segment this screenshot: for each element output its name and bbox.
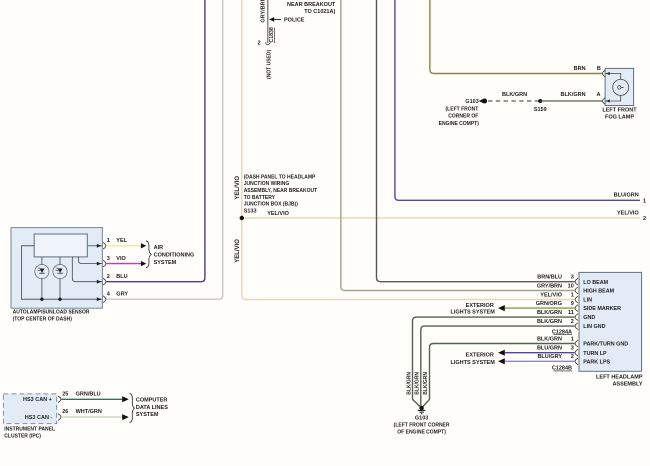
svg-text:25: 25: [62, 391, 68, 397]
wire BLK/GRN GND row5: [413, 317, 575, 408]
fog lamp bulb: [613, 79, 629, 95]
photodiode 2: [53, 265, 67, 279]
fog lamp internal wiring: [606, 74, 621, 102]
connector bracket: [265, 43, 270, 45]
svg-text:AUTOLAMP/SUNLOAD SENSOR: AUTOLAMP/SUNLOAD SENSOR: [13, 310, 90, 316]
fog lamp pin A bracket: [603, 98, 606, 105]
junction dots on sensor bus: [40, 298, 43, 301]
sensor pin arrows: [97, 244, 102, 248]
wire BLU/GRY park lps row9: [505, 360, 575, 362]
svg-text:PARK/TURN GND: PARK/TURN GND: [583, 342, 628, 348]
svg-text:GRY: GRY: [116, 292, 128, 298]
svg-text:GND: GND: [583, 315, 595, 321]
svg-text:LIN GND: LIN GND: [583, 324, 605, 330]
wire BLU/GRN turn lp row8: [505, 352, 575, 354]
svg-text:3: 3: [107, 256, 110, 262]
wire YEL sensor pin 1: [106, 245, 141, 247]
svg-text:BLK/GRN: BLK/GRN: [415, 372, 421, 395]
svg-text:HS3 CAN -: HS3 CAN -: [25, 415, 53, 421]
wire YEL/VIO vertical from top edge down through S133 to corner, then right to headlamp LIN pin: [242, 0, 575, 300]
wire BLU vertical from sensor pin 2 up to top edge: [106, 0, 205, 282]
svg-text:(NOT USED): (NOT USED): [266, 50, 272, 80]
brace air conditioning: [146, 241, 151, 268]
svg-text:BLK/GRN: BLK/GRN: [406, 372, 412, 395]
svg-text:3: 3: [571, 346, 574, 352]
svg-text:HS3 CAN +: HS3 CAN +: [23, 397, 52, 403]
sensor left loop wire: [21, 246, 102, 299]
sensor inner module: [34, 234, 87, 257]
arrow POLICE: [269, 17, 274, 22]
svg-text:LEFT FRONT: LEFT FRONT: [602, 107, 637, 113]
svg-text:NEAR BREAKOUT: NEAR BREAKOUT: [287, 2, 336, 8]
svg-text:EXTERIOR: EXTERIOR: [466, 303, 494, 309]
svg-text:(LEFT FRONT CORNER: (LEFT FRONT CORNER: [394, 423, 450, 429]
svg-text:HIGH BEAM: HIGH BEAM: [583, 289, 614, 295]
autolamp sensor box: [11, 228, 102, 309]
svg-text:TO BATTERY: TO BATTERY: [244, 195, 276, 201]
svg-text:BLU: BLU: [116, 274, 127, 280]
svg-text:OF ENGINE COMPT): OF ENGINE COMPT): [397, 429, 446, 435]
wire BRN vertical then right to fog lamp pin B: [430, 0, 603, 74]
svg-text:BLU/GRY: BLU/GRY: [537, 354, 562, 360]
wire VIO sensor pin 3: [106, 263, 141, 265]
fog lamp pin arrows: [606, 72, 610, 75]
fog lamp box: [605, 68, 634, 105]
svg-text:11: 11: [568, 310, 574, 316]
wire BLU/GRN vertical then right to edge: [395, 0, 640, 200]
svg-text:BLK/GRN: BLK/GRN: [502, 92, 527, 98]
svg-text:GRY/BRN: GRY/BRN: [537, 283, 562, 289]
svg-text:LEFT HEADLAMP: LEFT HEADLAMP: [596, 374, 643, 380]
svg-text:(TOP CENTER OF DASH): (TOP CENTER OF DASH): [13, 316, 73, 322]
svg-text:10: 10: [568, 283, 574, 289]
headlamp assembly box: [579, 272, 642, 371]
svg-text:GRN/ORG: GRN/ORG: [536, 301, 562, 307]
svg-text:3: 3: [571, 275, 574, 281]
svg-text:CONDITIONING: CONDITIONING: [154, 253, 195, 259]
svg-text:CLUSTER (IPC): CLUSTER (IPC): [4, 433, 41, 439]
wire GRY from sensor pin 4 right then up to top edge: [106, 0, 222, 299]
svg-text:(DASH PANEL TO HEADLAMP: (DASH PANEL TO HEADLAMP: [244, 174, 316, 180]
wire BLK/GRN PARK/TURN GND row7: [422, 344, 575, 409]
svg-text:2: 2: [571, 319, 574, 325]
instrument panel cluster box (dashed): [3, 394, 56, 424]
svg-text:LO BEAM: LO BEAM: [583, 280, 608, 286]
sensor pin 2 feeder: [72, 257, 102, 282]
wire GRY/BRN stub to connector C1838: [267, 0, 269, 43]
wire BLK/GRN from S159 to fog lamp pin A: [540, 100, 602, 102]
svg-text:AIR: AIR: [154, 245, 164, 251]
svg-text:GRN/BLU: GRN/BLU: [76, 391, 101, 397]
svg-text:VIO: VIO: [116, 256, 126, 262]
sensor pin brackets: [103, 243, 106, 250]
ground G103 (headlamp) dot and symbol: [419, 406, 423, 410]
svg-text:1: 1: [571, 292, 574, 298]
svg-text:BLK/GRN: BLK/GRN: [537, 319, 562, 325]
svg-text:1: 1: [643, 198, 646, 204]
svg-text:2: 2: [643, 216, 646, 222]
sensor pin 3 feeder: [79, 257, 103, 264]
wire GRN/ORG side marker: [505, 307, 575, 309]
svg-text:BRN: BRN: [574, 66, 586, 72]
svg-text:SYSTEM: SYSTEM: [154, 260, 177, 266]
svg-text:EXTERIOR: EXTERIOR: [466, 353, 494, 359]
wire GRN/BLU: [61, 398, 122, 400]
svg-text:YEL/VIO: YEL/VIO: [540, 292, 562, 298]
svg-text:B: B: [597, 66, 601, 72]
svg-text:INSTRUMENT PANEL: INSTRUMENT PANEL: [4, 427, 55, 433]
svg-text:A: A: [597, 92, 601, 98]
svg-text:POLICE: POLICE: [284, 18, 305, 24]
svg-text:G103: G103: [465, 99, 478, 105]
brace computer data lines: [130, 393, 135, 422]
svg-text:BLK/GRN: BLK/GRN: [537, 310, 562, 316]
svg-text:ASSEMBLY: ASSEMBLY: [612, 381, 642, 387]
wire BRN/BLU vertical to headlamp LO BEAM: [377, 0, 575, 282]
sensor pin 1 feeder: [88, 245, 102, 247]
svg-text:YEL/VIO: YEL/VIO: [235, 176, 241, 200]
svg-text:G103: G103: [415, 415, 428, 421]
svg-text:LIN: LIN: [583, 298, 592, 304]
wire YEL/VIO branch from S133 to right edge: [242, 217, 640, 219]
svg-text:YEL/VIO: YEL/VIO: [235, 239, 241, 263]
svg-text:TO C1021A): TO C1021A): [304, 9, 335, 15]
svg-text:1: 1: [571, 336, 574, 342]
wire BLK/GRN dashed from G103 to S159: [488, 100, 539, 102]
svg-text:PARK LPS: PARK LPS: [583, 359, 610, 365]
svg-text:S133: S133: [244, 208, 257, 214]
svg-text:WHT/GRN: WHT/GRN: [76, 409, 102, 415]
splice S159: [538, 99, 542, 103]
splice S133: [240, 216, 244, 220]
svg-text:YEL/VIO: YEL/VIO: [267, 211, 289, 217]
svg-text:CORNER OF: CORNER OF: [448, 114, 478, 120]
svg-text:SYSTEM: SYSTEM: [136, 412, 159, 418]
svg-text:ENGINE COMPT): ENGINE COMPT): [439, 121, 480, 127]
svg-text:2: 2: [107, 274, 110, 280]
svg-text:SIDE MARKER: SIDE MARKER: [583, 306, 621, 312]
wire GRY/BRN vertical to headlamp HIGH BEAM: [341, 0, 575, 291]
svg-text:BLU/GRN: BLU/GRN: [537, 346, 562, 352]
photodiode 1: [35, 265, 49, 279]
svg-text:2: 2: [571, 354, 574, 360]
svg-text:JUNCTION BOX (BJB)): JUNCTION BOX (BJB)): [244, 202, 299, 208]
svg-text:BRN/BLU: BRN/BLU: [537, 275, 562, 281]
svg-text:LIGHTS SYSTEM: LIGHTS SYSTEM: [450, 309, 495, 315]
svg-text:BLK/GRN: BLK/GRN: [537, 336, 562, 342]
svg-text:FOG LAMP: FOG LAMP: [605, 115, 634, 121]
svg-text:2: 2: [257, 40, 260, 46]
svg-text:BLU/GRN: BLU/GRN: [614, 192, 639, 198]
svg-text:S159: S159: [534, 107, 547, 113]
svg-text:(LEFT FRONT: (LEFT FRONT: [446, 107, 479, 113]
svg-text:LIGHTS SYSTEM: LIGHTS SYSTEM: [450, 360, 495, 366]
svg-text:26: 26: [62, 409, 68, 415]
headlamp pin brackets: [575, 278, 578, 285]
wire BLK/GRN LIN GND row6: [421, 326, 575, 408]
svg-text:YEL: YEL: [116, 238, 127, 244]
fog lamp pin B bracket: [603, 70, 606, 77]
svg-text:1: 1: [107, 238, 110, 244]
svg-text:GRY/BRN: GRY/BRN: [260, 0, 266, 23]
wire WHT/GRN: [61, 416, 122, 418]
svg-text:TURN LP: TURN LP: [583, 351, 607, 357]
ipc pin brackets: [58, 396, 61, 403]
svg-text:DATA LINES: DATA LINES: [136, 405, 168, 411]
svg-text:BLK/GRN: BLK/GRN: [561, 92, 586, 98]
svg-text:ASSEMBLY, NEAR BREAKOUT: ASSEMBLY, NEAR BREAKOUT: [244, 188, 317, 194]
svg-text:JUNCTION WIRING: JUNCTION WIRING: [244, 181, 290, 187]
svg-text:YEL/VIO: YEL/VIO: [617, 211, 639, 217]
svg-text:9: 9: [571, 301, 574, 307]
svg-text:BLK/GRN: BLK/GRN: [423, 372, 429, 395]
svg-text:COMPUTER: COMPUTER: [136, 398, 168, 404]
